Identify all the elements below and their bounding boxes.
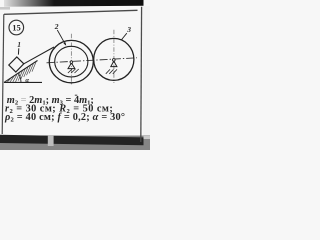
svg-text:ρ2 = 40 см; f = 0,2; α = 30°: ρ2 = 40 см; f = 0,2; α = 30°	[4, 112, 125, 124]
svg-text:15: 15	[12, 22, 21, 32]
svg-text:α: α	[25, 77, 29, 84]
svg-text:2: 2	[54, 22, 59, 31]
svg-text:3: 3	[126, 25, 131, 34]
svg-text:1: 1	[17, 40, 21, 49]
